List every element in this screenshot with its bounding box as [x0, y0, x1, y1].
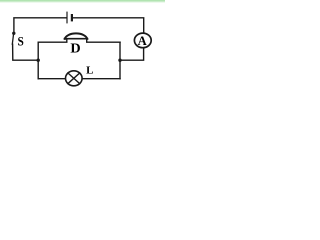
node right junction dot — [118, 59, 121, 62]
wire L branch left — [38, 78, 65, 80]
bell D dome — [65, 33, 87, 38]
svg-text:D: D — [70, 42, 80, 57]
battery short plate — [71, 15, 73, 20]
wire D branch right — [87, 39, 120, 43]
wire L branch right — [82, 78, 120, 80]
wire top-left to battery — [14, 18, 66, 33]
wire inner-right vertical — [119, 42, 121, 78]
switch S pivot dot — [12, 32, 15, 35]
node left junction dot — [37, 59, 40, 62]
bell D base line — [65, 38, 88, 40]
svg-text:L: L — [86, 64, 93, 76]
ammeter A circle — [134, 33, 151, 48]
lamp L circle — [66, 71, 83, 86]
battery long plate — [66, 12, 68, 23]
wire inner-left vertical — [37, 42, 39, 78]
lamp L cross — [68, 73, 80, 84]
green header band — [0, 0, 165, 3]
svg-text:A: A — [138, 33, 148, 48]
svg-text:S: S — [18, 34, 24, 49]
wire switch down to left junction — [13, 44, 39, 60]
wire battery to top-right corner down to ammeter — [73, 18, 144, 33]
wire D branch left — [38, 39, 67, 43]
switch S blade — [12, 35, 13, 45]
wire right junction to ammeter — [120, 49, 144, 61]
